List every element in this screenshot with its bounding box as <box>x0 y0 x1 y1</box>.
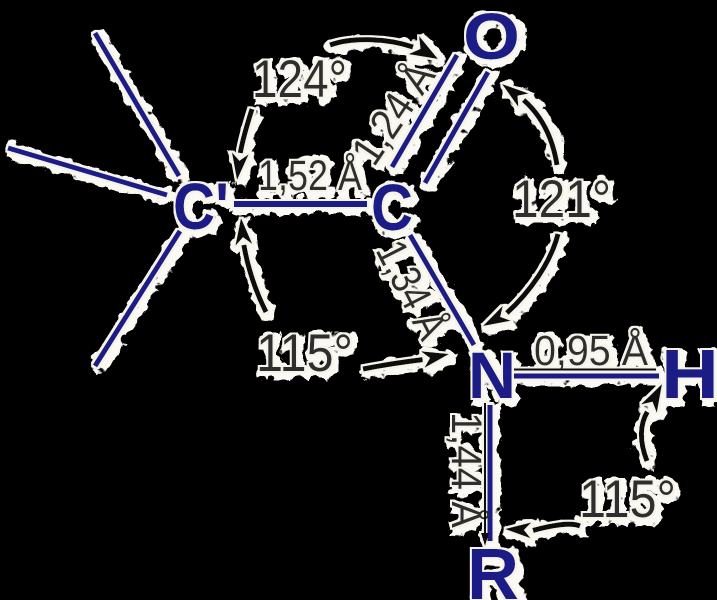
svg-text:N: N <box>468 338 516 412</box>
arrow from 115 right toward N-R bond <box>505 522 580 538</box>
svg-text:115°: 115° <box>256 324 353 383</box>
svg-text:R: R <box>467 535 519 600</box>
wire bond C' to substituent upper-left <box>95 33 179 176</box>
wire bond C' to substituent left <box>8 148 167 195</box>
svg-text:O: O <box>463 0 520 73</box>
svg-text:C': C' <box>173 169 229 243</box>
svg-text:121°: 121° <box>512 170 611 229</box>
svg-text:124°: 124° <box>252 50 347 109</box>
arrow arc right down toward N <box>483 234 558 326</box>
dimension line with arrow for 1,44 A <box>481 403 489 546</box>
svg-text:0,95 Å: 0,95 Å <box>534 327 648 375</box>
wire bond N-R <box>488 405 493 541</box>
svg-text:1,24 Å: 1,24 Å <box>342 54 445 174</box>
svg-text:115°: 115° <box>579 470 676 529</box>
arrow from below up to C' <box>235 218 266 312</box>
wire bond C=O inner line <box>425 72 488 183</box>
dimension line for 0,95 A <box>514 369 656 371</box>
wire bond N-H <box>514 374 659 379</box>
svg-text:1,44 Å: 1,44 Å <box>442 412 490 528</box>
svg-text:H: H <box>661 335 717 413</box>
svg-text:1,52 Å: 1,52 Å <box>258 152 362 200</box>
arrow from 124 label down to C' <box>232 109 252 180</box>
arrow arc top toward C=O bond <box>330 36 438 59</box>
arrow up toward H <box>641 384 662 461</box>
arrow arc right up toward O <box>502 84 557 165</box>
wire bond C-N <box>410 235 474 345</box>
wire bond C'-C <box>234 201 367 207</box>
wire bond C=O outer line <box>392 55 457 167</box>
arrow from 115 left toward N <box>363 351 449 369</box>
wire bond C' to substituent lower-left <box>95 231 180 366</box>
